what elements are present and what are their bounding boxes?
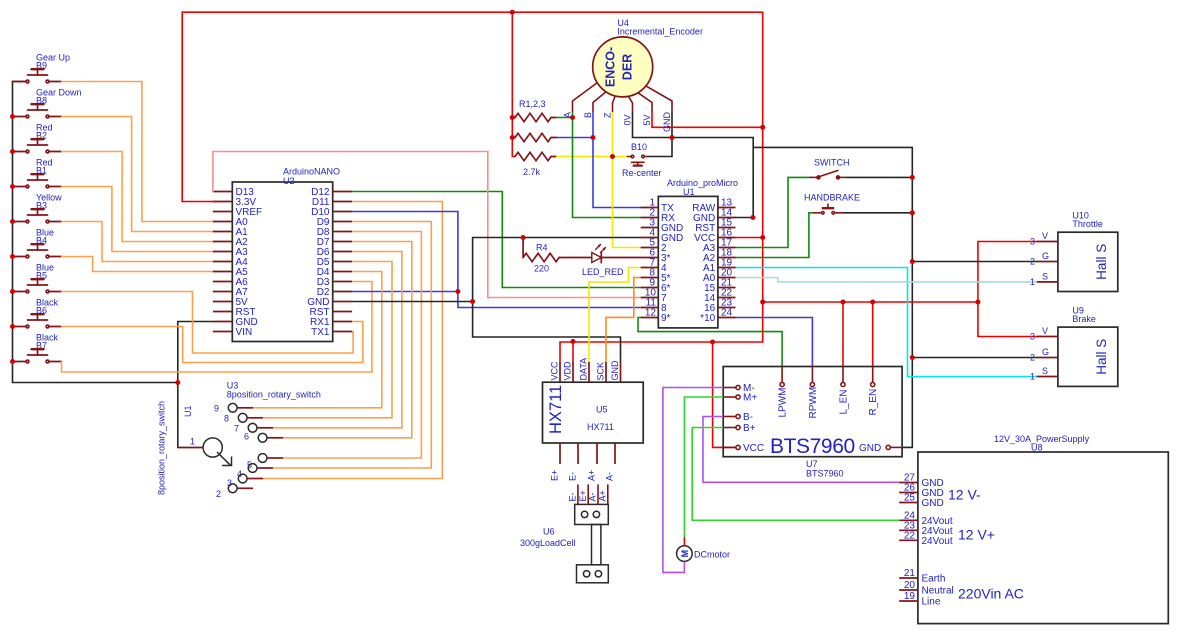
node R1 A net (570, 115, 575, 120)
svg-text:DATA: DATA (579, 358, 589, 381)
wire U1 A2 to HANDBRAKE green (736, 213, 813, 258)
svg-text:RPWM: RPWM (808, 387, 819, 419)
svg-text:ENCO-: ENCO- (604, 47, 618, 87)
encoder pins A B Z 0V 5V GND (573, 83, 673, 113)
pushbutton B3 Yellow (13, 193, 63, 223)
wire D5 to rotary c8 orange (263, 262, 392, 418)
node 5V hall branch (760, 300, 765, 305)
wire encoder Z yellow (613, 112, 641, 248)
U2 left pin names (236, 187, 263, 338)
node R_EN (870, 300, 875, 305)
wire GND branch right (753, 147, 912, 447)
svg-text:SCK: SCK (596, 362, 606, 381)
led LED_RED (592, 244, 641, 263)
node 0V GND cross (670, 135, 675, 140)
svg-text:Incremental_Encoder: Incremental_Encoder (617, 27, 703, 37)
svg-text:VDD: VDD (563, 361, 573, 381)
wire B8 to A1 (62, 117, 213, 232)
svg-text:U5: U5 (596, 405, 608, 415)
motor top stub (683, 537, 685, 546)
svg-text:U1: U1 (683, 187, 695, 197)
wire D10/D2 to U1 pin11 blue (352, 212, 641, 308)
U2 right pin names (307, 187, 330, 338)
wire HANDBRAKE to GND vertical black (843, 212, 912, 214)
svg-text:Arduino_proMicro: Arduino_proMicro (667, 178, 738, 188)
svg-text:19: 19 (904, 591, 916, 602)
wire U1 VCC red (736, 237, 763, 239)
U8 pin numbers (904, 473, 916, 603)
wire L_EN red drop (842, 302, 844, 367)
svg-text:12 V-: 12 V- (948, 487, 981, 503)
svg-text:2: 2 (216, 489, 221, 499)
rotary rotor (203, 438, 231, 466)
rotary contact 5 (247, 454, 283, 470)
pushbutton B7 Black (13, 333, 62, 363)
node NANO GND join (470, 299, 475, 304)
svg-text:L_EN: L_EN (838, 389, 849, 414)
svg-text:9*: 9* (661, 313, 671, 324)
rotary contact 9 (214, 403, 253, 413)
node BTS VCC riser (710, 340, 715, 345)
wire brake V (978, 336, 1037, 338)
wire B- purple to PSU GND (703, 417, 899, 483)
svg-text:G: G (1042, 251, 1049, 261)
svg-text:B-: B- (743, 412, 753, 423)
wire encoder 5V red (652, 112, 763, 127)
svg-text:HX711: HX711 (587, 422, 614, 432)
resistor R2 (512, 133, 556, 141)
mcu U2 ArduinoNANO (232, 182, 332, 342)
wire encoder B blue (593, 112, 641, 208)
wire NANO GND left (178, 321, 213, 323)
node hall V riser (975, 300, 980, 305)
svg-text:VCC: VCC (550, 361, 560, 381)
svg-text:8position_rotary_switch: 8position_rotary_switch (157, 401, 167, 495)
U6 pin labels (568, 490, 608, 501)
wire R2 to B net blue (557, 137, 594, 139)
U1 left pin numbers (645, 198, 657, 319)
svg-text:300gLoadCell: 300gLoadCell (520, 538, 576, 548)
svg-text:5V: 5V (642, 114, 652, 125)
rotary contact 8 (224, 413, 263, 423)
svg-text:GND: GND (610, 360, 620, 381)
svg-text:R4: R4 (536, 243, 548, 253)
U7 top pins (780, 367, 875, 387)
svg-text:DCmotor: DCmotor (694, 550, 730, 560)
node HX711 VDD (571, 339, 576, 344)
svg-text:2: 2 (1030, 353, 1035, 363)
wire R1 to A net green (557, 117, 573, 119)
U5 top pin labels (550, 358, 621, 381)
svg-text:GND: GND (662, 112, 672, 133)
wire red drop to resistors (512, 12, 515, 156)
U5 top pin stubs (560, 362, 621, 382)
svg-text:TX1: TX1 (311, 327, 330, 338)
svg-text:GND: GND (859, 443, 881, 454)
svg-text:Neutral: Neutral (922, 586, 954, 597)
svg-text:Throttle: Throttle (1072, 219, 1103, 229)
svg-text:*10: *10 (700, 313, 715, 324)
svg-text:A-: A- (588, 492, 598, 501)
U7 GND pin (886, 445, 902, 449)
U2 left pins (213, 192, 232, 332)
pushbutton B2 Red (13, 123, 62, 153)
svg-text:220: 220 (534, 264, 549, 274)
svg-text:U2: U2 (283, 176, 295, 186)
wire cyan U1 A1 to brake S (736, 268, 1037, 377)
svg-text:BTS7960: BTS7960 (770, 435, 855, 458)
wire encoder 0V black (633, 112, 754, 218)
svg-text:B+: B+ (743, 423, 756, 434)
wire B1 to A3 (62, 187, 213, 252)
sensor U9 Brake (1058, 327, 1118, 386)
pushbutton B1 Red (13, 158, 62, 188)
pushbutton B5 Blue (13, 263, 62, 293)
node throttle G (910, 259, 915, 264)
wire BTS VCC red riser (713, 342, 736, 447)
node B1 common (10, 184, 15, 189)
svg-text:HANDBRAKE: HANDBRAKE (804, 193, 860, 203)
node switch gnd (910, 175, 915, 180)
wire R3 to B10 yellow (557, 156, 628, 158)
mcu U1 Arduino_proMicro (658, 196, 718, 328)
wire NANO GND right black (352, 301, 473, 303)
svg-text:22: 22 (904, 530, 916, 541)
wire B9 to A0 (62, 82, 213, 222)
svg-text:2.7k: 2.7k (523, 167, 541, 177)
U5 bottom pin stubs (560, 443, 615, 464)
U7 left pins (723, 385, 740, 449)
motor DCmotor (677, 546, 693, 562)
svg-text:VIN: VIN (236, 327, 253, 338)
svg-text:U8: U8 (1031, 443, 1043, 453)
svg-text:SWITCH: SWITCH (814, 158, 850, 168)
wire M+ green (684, 397, 723, 537)
svg-text:LPWM: LPWM (778, 388, 789, 418)
node R1 left (510, 115, 515, 120)
svg-text:E+: E+ (578, 490, 588, 501)
svg-text:G: G (1042, 347, 1049, 357)
wire B+ green to PSU 24Vout (692, 428, 899, 521)
node B5 common (10, 289, 15, 294)
svg-text:Line: Line (922, 597, 941, 608)
psu U8 12V_30A_PowerSupply (918, 452, 1168, 624)
node B8 common (10, 114, 15, 119)
wire throttle V (978, 241, 1037, 243)
wire blue U1 pin24 to RPWM (736, 318, 813, 367)
wire pink D13 to U1 pin10 (213, 152, 641, 298)
rotary contact 3 (227, 474, 263, 488)
rotary contact 4 (237, 464, 273, 479)
svg-text:M+: M+ (743, 393, 757, 404)
U1 left pin stubs (641, 208, 659, 318)
svg-text:3: 3 (1030, 237, 1035, 247)
rotary pin 1 (178, 447, 203, 449)
wire HX711 VDD red drop (572, 342, 574, 363)
wire throttle G black (912, 261, 1037, 263)
svg-text:6: 6 (244, 431, 249, 441)
node U1 VCC (760, 235, 765, 240)
U1 right pin numbers (721, 198, 733, 319)
resistor R1 (512, 113, 556, 121)
node brake G (910, 355, 915, 360)
svg-text:24: 24 (721, 308, 733, 319)
U1 left pin names (661, 203, 683, 324)
node B4 common (10, 254, 15, 259)
svg-text:A-: A- (605, 472, 615, 481)
svg-text:8: 8 (224, 413, 229, 423)
wire D12 to U1 pin9 green (352, 192, 641, 288)
node B3 common (10, 219, 15, 224)
node red top R feed (510, 10, 515, 15)
svg-text:BTS7960: BTS7960 (806, 469, 844, 479)
svg-text:1: 1 (1030, 372, 1035, 382)
encoder U4 Incremental_Encoder (593, 37, 653, 97)
svg-text:Hall S: Hall S (1094, 339, 1109, 375)
U5 bottom pin labels (550, 470, 615, 481)
wire B7 to D3 (62, 282, 372, 373)
svg-text:R_EN: R_EN (868, 389, 879, 416)
svg-text:7: 7 (234, 423, 239, 433)
svg-text:S: S (1042, 366, 1048, 376)
wire D4 to rotary c9 orange (253, 272, 382, 408)
svg-text:VCC: VCC (743, 443, 764, 454)
svg-text:A+: A+ (597, 490, 607, 501)
node 5V join (760, 125, 765, 130)
svg-text:12: 12 (645, 308, 657, 319)
svg-text:U1: U1 (183, 405, 193, 417)
svg-text:M: M (680, 550, 690, 558)
wire D2 join blue (352, 291, 458, 293)
svg-text:V: V (1042, 231, 1048, 241)
wire yellow DATA chain (589, 268, 641, 363)
pushbutton B4 Blue (13, 228, 62, 258)
svg-text:ArduinoNANO: ArduinoNANO (283, 167, 340, 177)
wire B3 to A4 (62, 222, 213, 262)
wire HX711 VCC red drop (559, 342, 561, 362)
wire SWITCH to GND vertical black (846, 176, 912, 178)
wire 5Vnet to U1 VCC / halls (763, 301, 978, 303)
U8 pin names (922, 478, 954, 608)
node rotary common junction (175, 380, 180, 385)
node U1 GND14 (750, 215, 755, 220)
svg-text:DER: DER (621, 54, 635, 80)
svg-text:9: 9 (214, 403, 219, 413)
wire U1 A3 to SWITCH green (736, 177, 810, 247)
svg-text:0V: 0V (623, 114, 633, 125)
node B2 common (10, 149, 15, 154)
wire 5Vnet hall V riser (977, 242, 979, 337)
U8 pin stubs (899, 483, 918, 602)
node R2 B net (591, 135, 596, 140)
svg-text:A+: A+ (587, 470, 597, 481)
svg-text:LED_RED: LED_RED (582, 267, 624, 277)
resistor R4 (523, 238, 591, 262)
svg-text:R1,2,3: R1,2,3 (519, 99, 546, 109)
svg-text:Earth: Earth (922, 574, 946, 585)
svg-text:Hall S: Hall S (1094, 244, 1109, 280)
rotary contact 2 (216, 484, 253, 499)
svg-text:U6: U6 (543, 527, 555, 537)
pushbutton B8 Gear Down (13, 88, 82, 118)
svg-text:GND: GND (922, 498, 944, 509)
svg-text:E+: E+ (550, 470, 560, 481)
svg-text:V: V (1042, 326, 1048, 336)
svg-text:B10: B10 (631, 142, 647, 152)
wire green U1 pin12 to LPWM (638, 318, 782, 367)
encoder pin labels (563, 112, 673, 133)
svg-text:25: 25 (904, 493, 916, 504)
svg-text:1: 1 (190, 437, 195, 447)
svg-text:2: 2 (1030, 257, 1035, 267)
node D2 blue join (455, 289, 460, 294)
U1 right pin stubs (718, 208, 736, 318)
svg-text:20: 20 (904, 580, 916, 591)
svg-text:220Vin AC: 220Vin AC (958, 586, 1024, 602)
resistor R3 (515, 152, 557, 160)
node B6 common (10, 324, 15, 329)
wire orange SCK chain (606, 278, 641, 363)
wire encoder GND to B10 (648, 112, 672, 157)
svg-text:E-: E- (568, 472, 578, 481)
svg-text:Z: Z (603, 112, 613, 118)
wire B4 to A5 (62, 257, 213, 272)
svg-text:U7: U7 (806, 459, 818, 469)
sensor U10 Throttle (1058, 232, 1118, 291)
svg-text:E-: E- (568, 492, 578, 501)
wire R_EN red drop (872, 302, 874, 367)
pushbutton B10 Re-center (622, 142, 662, 178)
svg-text:B: B (583, 112, 593, 118)
U1 right pin names (692, 203, 716, 324)
svg-text:Brake: Brake (1072, 314, 1096, 324)
wire common left vertical (13, 82, 178, 383)
node B7 common (10, 359, 15, 364)
wire D8 to rotary c5 orange (283, 232, 421, 459)
node R4 top (521, 235, 526, 240)
wire pin4 GND black (473, 238, 641, 363)
rotary contact 7 (234, 423, 273, 433)
wire M- purple (663, 388, 723, 573)
wire B6 to RX1 (62, 322, 363, 363)
adc U5 HX711 (543, 382, 644, 443)
svg-text:3: 3 (1030, 332, 1035, 342)
wire D6 to rotary c7 orange (273, 252, 402, 428)
node L_EN (841, 300, 846, 305)
svg-text:8position_rotary_switch: 8position_rotary_switch (227, 390, 321, 400)
wire 3.3V top red bus (182, 12, 763, 342)
svg-text:21: 21 (904, 568, 916, 579)
U2 right pins (333, 192, 352, 332)
wire D9 to rotary c4 orange (273, 222, 431, 469)
wire B2 to A2 (62, 152, 213, 242)
pushbutton B6 Black (13, 298, 62, 328)
svg-text:Re-center: Re-center (622, 168, 662, 178)
wire D11 to rotary c3 orange (263, 202, 442, 479)
wire D7 to rotary c6 orange (283, 242, 412, 438)
wire B5 to TX1 (62, 292, 354, 354)
pushbutton B9 Gear Up (13, 53, 71, 83)
svg-text:S: S (1042, 271, 1048, 281)
node R2 left (510, 135, 515, 140)
U6 pin stubs (578, 484, 608, 504)
wire rotary common riser (177, 322, 179, 448)
wire pale cyan U1 A0 to throttle S (736, 278, 1037, 282)
svg-text:HX711: HX711 (547, 385, 565, 434)
node R3 Z net (610, 154, 615, 159)
wire brake G black (912, 357, 1037, 359)
svg-text:1: 1 (1030, 277, 1035, 287)
svg-text:24Vout: 24Vout (922, 536, 953, 547)
node handbrake gnd (910, 210, 915, 215)
wire encoder A green (573, 112, 641, 218)
driver U7 BTS7960 (723, 367, 902, 457)
rotary contact 6 (244, 431, 283, 442)
svg-text:12 V+: 12 V+ (958, 527, 995, 543)
